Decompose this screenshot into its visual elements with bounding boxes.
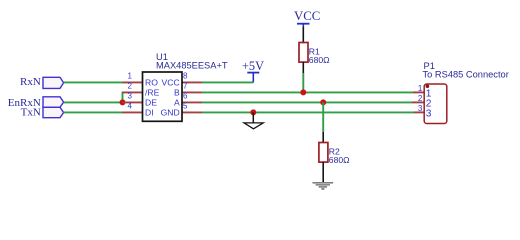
ground triangle [244, 123, 263, 129]
op-amp U1 body [143, 72, 183, 121]
wire pin5 (GND) to connector pin3 [202, 111, 414, 113]
chip U1 pins left [123, 81, 143, 83]
ground stub [252, 112, 254, 123]
svg-text:DI: DI [145, 108, 154, 118]
svg-text:TxN: TxN [21, 107, 41, 119]
svg-text:3: 3 [426, 109, 432, 120]
wire vertical pin2 to junction [122, 92, 124, 103]
wire TxN to pin4 [64, 111, 124, 113]
svg-text:6: 6 [183, 92, 188, 101]
svg-text:3: 3 [128, 92, 133, 101]
svg-text:4: 4 [128, 102, 133, 111]
wire R2 top black stub [322, 132, 324, 143]
junction dot R1/B [300, 89, 306, 95]
svg-text:2: 2 [128, 82, 133, 91]
resistor R1 [299, 43, 330, 65]
svg-text:8: 8 [183, 72, 188, 81]
junction dot at pin3 [120, 99, 126, 105]
svg-text:MAX485EESA+T: MAX485EESA+T [156, 61, 228, 71]
svg-text:2: 2 [418, 94, 423, 103]
port EnRxN [8, 97, 64, 109]
svg-text:To RS485 Connector: To RS485 Connector [423, 70, 509, 80]
svg-text:/RE: /RE [145, 88, 160, 98]
wire VCC to R1 [302, 27, 304, 43]
chip U1 pins right [182, 81, 202, 83]
svg-text:RxN: RxN [20, 76, 41, 88]
svg-text:7: 7 [183, 82, 188, 91]
wire R2 bottom to ground [322, 162, 324, 182]
svg-text:A: A [174, 98, 180, 108]
wire EnRxN to pin3 junction [64, 101, 123, 103]
wire A to R2 [322, 102, 324, 132]
earth ground under R2 [313, 182, 334, 190]
port RxN [20, 76, 64, 88]
svg-text:+5V: +5V [242, 59, 264, 73]
wire pin7 (B) to connector pin1 [202, 91, 413, 93]
svg-text:680Ω: 680Ω [329, 155, 350, 165]
svg-text:DE: DE [145, 98, 157, 108]
resistor R2 [319, 143, 350, 165]
junction dot R2/A [320, 99, 326, 105]
power port VCC [294, 9, 320, 28]
svg-text:3: 3 [418, 104, 423, 113]
svg-text:GND: GND [161, 108, 180, 118]
svg-text:VCC: VCC [294, 9, 320, 23]
wire pin6 (A) to connector pin2 [202, 101, 412, 103]
power port +5V [242, 59, 264, 83]
connector P1 pins [413, 91, 424, 93]
wire pin8 to +5V [202, 81, 253, 83]
svg-text:1: 1 [418, 84, 423, 93]
svg-text:B: B [174, 88, 180, 98]
svg-text:680Ω: 680Ω [309, 55, 330, 65]
wire R1 to wire B [302, 73, 304, 92]
connector P1 body [424, 84, 447, 124]
svg-text:RO: RO [145, 78, 158, 88]
port TxN [21, 107, 64, 119]
connector pin1 marker dot [426, 84, 430, 88]
svg-text:5: 5 [183, 102, 188, 111]
svg-text:1: 1 [128, 72, 133, 81]
junction dot GND wire [250, 109, 256, 115]
wire R1 bottom black stub [302, 62, 304, 73]
svg-text:VCC: VCC [162, 78, 180, 88]
wire RxN to pin1 [64, 81, 124, 83]
